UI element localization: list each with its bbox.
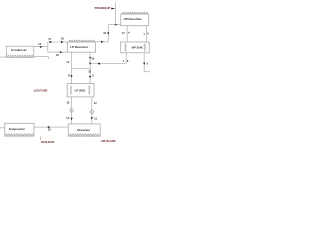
svg-text:IAUN,EVAP: IAUN,EVAP xyxy=(41,141,55,144)
arrow into HP desorber xyxy=(115,24,118,26)
evaporator box xyxy=(5,123,34,136)
svg-text:tLDV,T,ABS: tLDV,T,ABS xyxy=(34,90,48,93)
svg-text:HP Desorber: HP Desorber xyxy=(124,17,143,21)
arrow vapor down xyxy=(107,32,109,34)
wire evaporator to absorber xyxy=(34,126,68,128)
LP SHX right coil xyxy=(89,86,90,95)
wire heat input riser xyxy=(115,3,117,25)
wire evaporator left inlet xyxy=(0,127,5,129)
wire HP desorber to HP SHX right xyxy=(145,26,147,42)
absorber box xyxy=(68,124,100,136)
condenser coil xyxy=(7,55,33,57)
svg-text:PUN,DSQ,HP: PUN,DSQ,HP xyxy=(95,7,111,10)
LP desorber box xyxy=(67,42,95,52)
LP SHX left coil xyxy=(70,86,71,95)
arrow solution a xyxy=(50,41,53,43)
arrow weak down xyxy=(89,57,91,59)
absorber coil xyxy=(69,134,100,136)
svg-text:IWLSH,ABS: IWLSH,ABS xyxy=(101,140,115,143)
wire vapor riser xyxy=(107,25,109,42)
wire LP desorber vapor out xyxy=(95,41,108,43)
HP desorber coil xyxy=(122,12,148,14)
wire LP desorber weak solution down xyxy=(89,52,91,83)
arrow into absorber right xyxy=(91,117,93,119)
arrow heat input xyxy=(111,8,115,10)
stub near evaporator label xyxy=(39,136,41,140)
wire vertical junction xyxy=(47,42,49,52)
wire cross connector xyxy=(72,68,91,70)
svg-text:Absorber: Absorber xyxy=(77,128,91,132)
wire HP SHX return xyxy=(90,63,126,65)
wire exit right xyxy=(144,71,150,73)
condenser box xyxy=(6,46,34,57)
svg-text:HP SHX: HP SHX xyxy=(132,46,143,50)
arrow weak down b xyxy=(89,63,91,65)
LP desorber coil xyxy=(69,40,96,42)
wire HP desorber to HP SHX left xyxy=(126,26,128,42)
wire condenser inlet xyxy=(34,46,48,48)
HP desorber box xyxy=(121,14,149,26)
HP SHX box xyxy=(121,42,150,53)
arrow on desorber bottom line xyxy=(60,51,63,53)
HP SHX right coil xyxy=(144,44,146,52)
valve right diamond xyxy=(90,110,94,114)
wire condenser left outlet xyxy=(0,56,6,58)
arrow refrigerant vapor xyxy=(48,126,51,128)
arrow into absorber left xyxy=(71,118,73,120)
wire LP desorber bottom extension xyxy=(48,51,68,53)
wire condenser drain stub xyxy=(47,57,49,59)
wire LP SHX left up xyxy=(71,52,73,83)
wire HP SHX right down xyxy=(143,53,145,72)
arrow into condenser xyxy=(40,46,42,48)
HP SHX left coil xyxy=(125,44,127,52)
valve left xyxy=(70,109,73,112)
wire solution to LP desorber xyxy=(48,41,68,43)
tick 17b xyxy=(128,32,129,34)
wire HP SHX left down xyxy=(125,53,127,64)
arrow into LP SHX right xyxy=(89,76,91,78)
evaporator coil xyxy=(5,134,33,136)
arrow up into LP desorber xyxy=(71,75,73,77)
arrow solution b xyxy=(61,41,64,43)
svg-text:Evaporator: Evaporator xyxy=(9,127,26,131)
wire condenser drain xyxy=(34,56,49,58)
wire into HP desorber xyxy=(108,24,121,26)
wire LP SHX right down xyxy=(91,97,93,124)
arrow vapor right xyxy=(101,41,104,43)
svg-text:Condenser: Condenser xyxy=(11,48,28,52)
arrow return left xyxy=(97,63,100,65)
arrow HP SHX down xyxy=(143,63,145,65)
LP SHX box xyxy=(67,84,94,97)
wire LP SHX left down xyxy=(71,97,73,124)
svg-text:LP Desorber: LP Desorber xyxy=(70,45,89,49)
svg-text:LP SHX: LP SHX xyxy=(75,89,86,93)
